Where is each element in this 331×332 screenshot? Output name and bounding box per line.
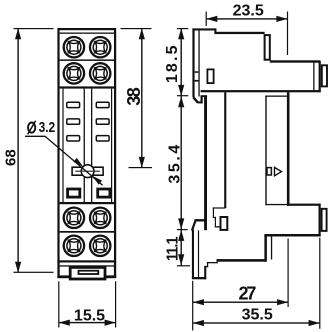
svg-text:35.5: 35.5 [242,307,273,324]
dim 68 bottom tick [14,272,54,273]
screw B3 [64,236,84,256]
side web left edge [204,97,207,230]
screw B2 [90,208,110,228]
dim 15.5 left arrow [59,320,70,326]
dim 23.5 left arrow [206,16,217,22]
side top arm bottom edge [201,90,321,92]
side end vertical top arm [319,61,321,92]
dim 35.4 top arrow [178,96,184,107]
dim 15.5 ext left [58,281,59,327]
screw A3 [64,63,84,83]
side rib D [221,217,228,230]
dim 35.4 bottom arrow [178,218,184,229]
dim 38 top arrow [139,28,145,39]
slot row1 left [67,102,80,107]
dim 27 line [193,302,288,303]
side upper edge right of rib [270,60,321,62]
side seam top arm [313,62,314,91]
svg-text:3.2: 3.2 [39,119,56,136]
side right web right thick [287,92,290,206]
dim 38 line [141,29,142,168]
dim 18.5 line [181,29,182,96]
label diameter symbol [28,121,36,135]
dim 38 bottom arrow [139,157,145,168]
side top step [214,28,216,34]
dim 35.5 right arrow [309,320,320,326]
dim 68 top arrow [15,28,21,39]
svg-text:68: 68 [2,149,19,166]
clip left wall [57,261,59,277]
dim 18.5 top arrow [178,28,184,39]
svg-text:15.5: 15.5 [74,307,105,324]
side staircase v1 [213,207,214,218]
dim 27 left arrow [193,299,204,305]
mid section bottom line [60,202,114,204]
side leg seam [271,237,272,260]
side web top cap [201,95,208,97]
slot row1 right [96,102,109,107]
side foot inner seam [198,230,199,277]
mid column line right outer [111,89,112,202]
dim 23.5 line [206,18,287,19]
slot row4 right thick [98,189,110,197]
clip bottom left cap [57,275,70,278]
side foot left edge [192,230,194,279]
side collar B [322,65,327,86]
side bottom arm top edge [287,204,321,206]
front body outline [59,29,116,261]
side staircase v2 [215,217,216,227]
side left edge [192,28,194,97]
clip inner rect [79,271,99,274]
dim 11.1 line [181,230,182,266]
dim 27 ext right [288,239,289,308]
dim 35.4 bottom tick [177,229,188,230]
hole circle [81,165,94,178]
side bottom arm bottom edge [264,234,320,237]
divider top screw rows [60,59,114,61]
hole tab rect [72,167,103,175]
dim 27 ext left [192,281,193,331]
dim 15.5 ext right [115,281,116,327]
screw A4 [90,63,110,83]
clip tab [70,267,105,279]
screw B4 [90,236,110,256]
dim 35.4 line [181,96,182,230]
side ledge1 up [207,262,208,267]
side collar C [322,209,327,231]
side web right edge [224,92,226,208]
side hook horizontal [197,101,203,103]
side left bar1 [195,71,199,73]
clip right wall [114,261,116,277]
side small rib left [207,69,213,83]
hole crosshair line [75,171,100,172]
side staircase h2 [213,217,216,218]
dim 23.5 ext left [206,12,207,27]
side hook up vertical [201,96,203,104]
slot row3 right [96,136,109,141]
slot row2 right [96,119,109,124]
side foot right edge [204,266,206,279]
side bottom arm end vertical [319,204,321,237]
side marker triangle [275,167,282,175]
dim 11.1 bottom tick [177,265,190,266]
side hook top edge [195,219,208,221]
side rib A [265,35,270,60]
svg-text:18.5: 18.5 [164,43,181,83]
clip divider line [60,265,114,266]
side ledge1 [204,266,208,267]
side ledge2 up [217,259,218,263]
screw B1 [64,208,84,228]
dim 18.5 bottom tick [177,95,188,96]
hole leader diagonal [25,136,103,185]
side right web left thin [265,96,266,206]
side ledge2 [207,262,218,263]
leader arrowhead lower [92,176,102,185]
dim 27 right arrow [277,299,288,305]
mid column line center-left lower [84,176,85,202]
dim 35.5 ext right [319,238,320,329]
side hook chamfer [192,220,196,231]
dim 11.1 top arrow [178,230,184,241]
mid column line left outer [62,89,63,202]
slot row3 left [67,136,80,141]
screw A1 [64,37,84,57]
dim 35.5 left arrow [193,320,204,326]
side chamfer [193,97,198,102]
svg-text:23.5: 23.5 [233,2,264,19]
dim 68 line [17,29,18,273]
mid column line center-right lower [91,176,92,202]
side leg left edge [264,235,267,262]
side foot bottom [192,277,206,279]
side left bar2 [195,80,199,82]
side right web bottom cap [265,204,287,205]
dim 38 top tick [121,28,152,29]
side top edge level2 [214,32,264,34]
mid column line center-right upper [91,89,92,167]
dim 18.5 top tick [177,28,188,29]
divider bottom screw rows [60,231,114,233]
side long bottom edge [217,259,267,262]
leader arrowhead upper [73,158,83,167]
clip bottom right cap [105,275,116,278]
slot row2 left [67,119,80,124]
side right web top cap [265,96,287,97]
screw A2 [90,37,110,57]
dim 15.5 line [59,322,116,323]
top block bottom line [60,86,114,88]
slot row4 left thick [68,189,80,197]
side staircase h1 [213,207,225,208]
dim 38 bottom tick [129,167,153,168]
dim 35.5 line [193,322,320,323]
side top edge level1 [192,28,216,30]
top inner line [60,33,114,34]
dim 23.5 right arrow [276,16,287,22]
svg-text:11.1: 11.1 [164,236,182,261]
dim 15.5 right arrow [105,320,116,326]
svg-text:27: 27 [238,283,256,303]
svg-text:35.4: 35.4 [167,142,184,184]
svg-text:38: 38 [124,87,144,105]
dim 18.5 bottom arrow [178,85,184,96]
side inner thin vertical left [198,31,199,97]
dim 68 bottom arrow [15,262,21,273]
side marker square [267,168,271,175]
dim 11.1 bottom arrow [178,254,184,265]
mid column line center-left upper [84,89,85,167]
dim 68 top tick [14,28,54,29]
dim 23.5 ext right [287,12,288,56]
side staircase h3 [215,226,221,227]
